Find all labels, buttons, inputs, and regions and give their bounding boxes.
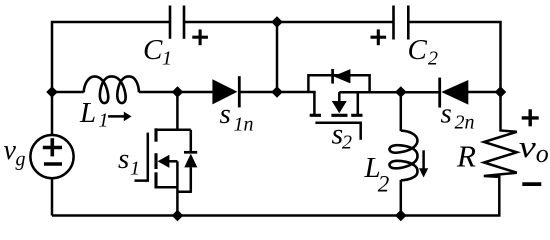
transistor s2 channel segments <box>310 114 363 117</box>
svg-text:2: 2 <box>342 132 352 154</box>
capacitor C1 <box>170 6 184 39</box>
transistor s1 source vertical <box>176 161 179 215</box>
diode s2n <box>441 80 468 105</box>
diode s2 body diode triangle <box>333 69 350 83</box>
wire s1n to s2 <box>239 91 315 94</box>
node D (middle junction) <box>271 86 283 98</box>
node H (L2 bottom) <box>395 210 407 222</box>
wire top rail left (top-left corner, down left side to source) <box>52 22 170 135</box>
wire L1 to s1n <box>139 91 212 94</box>
diode s2n bar <box>438 78 441 108</box>
arrow L1 current <box>108 115 124 118</box>
svg-text:g: g <box>16 149 26 171</box>
svg-text:C: C <box>408 34 428 66</box>
node C (s1 drain) <box>172 86 184 98</box>
arrow L2 current <box>422 150 425 168</box>
svg-text:v: v <box>519 129 536 164</box>
svg-text:2: 2 <box>378 171 390 196</box>
svg-text:1n: 1n <box>234 114 254 136</box>
svg-text:s: s <box>441 98 452 130</box>
transistor s1 top jog <box>155 129 191 132</box>
bottom rail <box>52 214 501 217</box>
transistor s1 source jog <box>156 186 177 189</box>
svg-text:1: 1 <box>130 158 140 180</box>
svg-text:2: 2 <box>428 48 438 70</box>
inductor L1 <box>84 76 139 103</box>
node G (s1 source bottom) <box>172 210 184 222</box>
wire top junction vertical <box>276 22 279 92</box>
capacitor C2 <box>394 6 409 40</box>
plus sign vo <box>522 109 539 126</box>
svg-text:o: o <box>536 139 549 168</box>
inductor L2 top wire <box>400 92 403 131</box>
svg-text:2n: 2n <box>455 112 475 134</box>
transistor s2 left stub <box>313 92 316 114</box>
inductor L2 bottom wire <box>400 180 403 216</box>
wire top rail right and right side down <box>408 22 500 92</box>
transistor s2 gate <box>315 122 362 140</box>
plus sign C1 <box>192 29 208 45</box>
wire s2n to right rail <box>466 91 501 94</box>
node F (right rail) <box>495 86 507 98</box>
transistor s2 body arrow <box>338 92 341 101</box>
svg-text:s: s <box>220 98 231 130</box>
node B (top junction) <box>271 16 283 28</box>
node A (left rail / L1) <box>46 86 58 98</box>
plus sign C2 <box>371 29 387 45</box>
diode s2 body diode bar <box>331 69 334 84</box>
resistor R <box>484 92 517 216</box>
svg-text:C: C <box>143 34 163 66</box>
transistor s2 body diode loop <box>308 75 369 92</box>
svg-text:s: s <box>118 143 129 175</box>
transistor s2 right stub <box>357 92 360 114</box>
diode s1n <box>212 79 237 104</box>
node E (L2 top) <box>395 86 407 98</box>
wire top rail middle <box>184 21 394 24</box>
transistor s1 channel segments <box>154 128 157 188</box>
svg-text:1: 1 <box>162 48 172 70</box>
svg-text:1: 1 <box>99 110 109 132</box>
diode s1 body diode <box>190 130 193 153</box>
transistor s1 gate <box>135 133 148 182</box>
voltage source vg <box>30 135 73 178</box>
wire s2 to s2n <box>339 91 439 94</box>
inductor L2 <box>389 131 417 181</box>
wire middle rail left <box>52 91 84 94</box>
svg-text:L: L <box>79 97 96 129</box>
svg-text:R: R <box>456 139 476 174</box>
transistor s1 body arrow <box>169 160 178 163</box>
transistor Q s1 drain stub <box>176 92 179 130</box>
minus sign vo <box>522 182 541 186</box>
wire source bottom to rail <box>51 178 54 215</box>
